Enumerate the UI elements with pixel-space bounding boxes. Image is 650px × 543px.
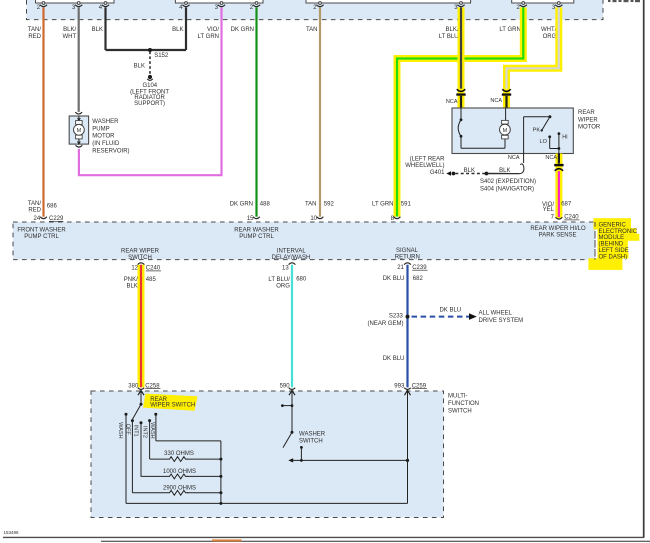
svg-text:RESERVOIR): RESERVOIR) [92,149,129,155]
wire 993 inside box [407,391,409,503]
washer switch rail [288,458,293,462]
svg-text:21: 21 [397,265,404,271]
connector block C2 [175,0,263,3]
svg-text:INT1: INT1 [133,425,139,437]
svg-text:SWITCH: SWITCH [299,439,323,445]
svg-text:HI: HI [562,134,568,140]
dashed wire DK BLU to all wheel drive [412,316,470,318]
svg-text:DK GRN: DK GRN [230,202,253,208]
svg-text:OFF: OFF [125,424,131,436]
next page top border [101,540,650,542]
wire HI down and out of box [558,134,560,154]
svg-text:OF DASH): OF DASH) [599,255,628,261]
svg-text:REAR WIPER: REAR WIPER [121,248,160,254]
svg-text:LT BLU/: LT BLU/ [268,277,290,283]
svg-text:15: 15 [247,216,254,222]
washer switch feed [291,391,293,432]
svg-text:BLK: BLK [464,168,475,174]
contact HI [558,132,561,135]
wire BLK (pin 4 right) to S152 [185,7,187,50]
svg-text:BLK/: BLK/ [63,27,76,33]
svg-text:PARK SENSE: PARK SENSE [539,232,577,238]
page bottom border [3,536,644,538]
contact OFF [131,419,134,422]
svg-text:G401: G401 [430,170,445,176]
svg-text:7: 7 [551,215,555,221]
svg-text:1000 OHMS: 1000 OHMS [163,469,196,475]
wire LT GRN 591 highlighted (yellow) [397,7,523,216]
svg-text:RETURN: RETURN [395,255,420,261]
resistor R2 1000 OHMS [141,475,167,477]
wire LT BLU/ORG 680 [291,265,293,388]
svg-text:BLK: BLK [126,284,137,290]
multi-function switch dashed box [91,391,444,518]
svg-text:SWITCH: SWITCH [448,408,472,414]
wiper switch arm to PK [542,117,550,131]
svg-text:PUMP: PUMP [92,126,109,132]
splice S233 [406,315,410,319]
pin 2 terminal cup at x=523.3 [520,5,527,7]
pin 3 at x=221.5 [220,2,223,5]
svg-text:REAR WIPER HI/LO: REAR WIPER HI/LO [530,226,586,232]
svg-text:G104: G104 [142,83,157,89]
svg-text:RED: RED [28,34,41,40]
svg-text:DRIVE SYSTEM: DRIVE SYSTEM [479,318,524,324]
svg-text:MODULE: MODULE [599,235,625,241]
svg-text:WHT/: WHT/ [541,27,557,33]
svg-text:REAR: REAR [578,110,595,116]
svg-text:WASH: WASH [117,422,123,438]
pin 4 at x=105.5 [104,2,107,5]
svg-text:153496: 153496 [4,530,20,535]
svg-text:WHT: WHT [63,34,77,40]
highlighted label REAR WIPER SWITCH [143,394,198,411]
svg-text:488: 488 [260,202,271,208]
svg-text:YEL: YEL [543,207,555,213]
svg-text:TAN/: TAN/ [28,27,42,33]
svg-text:WHEELWELL): WHEELWELL) [405,163,444,169]
svg-text:S233: S233 [389,313,404,319]
pin 3 terminal cup at x=78.7 [75,5,82,7]
svg-text:NCA: NCA [508,155,520,161]
rear wiper motor box [452,108,573,154]
GEM exit cup pin 12 C240 [138,263,145,265]
washer pump motor feed arrow [78,116,80,120]
pin 4 terminal cup at x=186 [182,5,189,7]
highlighted label GENERIC ELECTRONIC MODULE (BEHIND LEFT SIDE OF DASH) [594,218,632,229]
GEM exit cup pin 13 [289,263,296,265]
svg-text:592: 592 [324,202,335,208]
svg-text:WASHER: WASHER [92,119,119,125]
pin 3 at x=558.8 [557,2,560,5]
svg-text:S402 (EXPEDITION): S402 (EXPEDITION) [480,179,536,185]
svg-text:BLK: BLK [499,168,510,174]
rear wiper switch feed [140,391,142,404]
rear wiper motor M2 symbol [505,108,507,121]
svg-text:682: 682 [413,276,424,282]
svg-text:BLK: BLK [172,27,183,33]
svg-text:LT BLU: LT BLU [439,34,459,40]
inline connector NCA on WHT/ORG [502,89,510,91]
svg-text:MULTI-: MULTI- [448,393,468,399]
washer switch contact [300,446,303,449]
wire DK GRN 488 (rear washer pump ctrl) [255,7,257,216]
svg-text:TAN/: TAN/ [28,201,42,207]
svg-text:680: 680 [296,277,307,283]
svg-text:DELAY/WASH: DELAY/WASH [272,255,311,261]
inline connector NCA on VIO wire [554,164,563,166]
svg-text:RED: RED [28,208,41,214]
wire TAN 592 [319,7,321,216]
wire BLK horizontal joining at S152 [106,49,187,51]
wire DK BLU 682 [406,265,408,388]
splice S152 [148,48,152,52]
pin 3 at x=461 [460,2,463,5]
pin 2 at x=523.3 [522,2,525,5]
entry arrow 590 [289,390,295,395]
svg-text:LEFT SIDE: LEFT SIDE [599,248,629,254]
svg-text:REAR WASHER: REAR WASHER [234,228,279,234]
svg-text:13: 13 [282,266,289,272]
svg-text:M: M [77,128,82,134]
wire LO to output [549,137,551,149]
resistor R1 330 OHMS [150,458,167,460]
svg-text:FRONT WASHER: FRONT WASHER [17,228,66,234]
svg-text:(IN FLUID: (IN FLUID [92,141,120,147]
svg-text:591: 591 [401,202,412,208]
top right cut text fragment [608,0,640,2]
wire inside motor box to motor [461,147,505,149]
park switch contact (inside motor) [460,108,462,119]
GEM border right edge over highlight [594,222,596,260]
pin 3 terminal cup at x=461 [457,5,464,7]
entry arrow 993 [405,390,411,395]
pin 2 terminal cup at x=320 [316,5,323,7]
svg-text:MOTOR: MOTOR [578,125,601,131]
svg-text:(LEFT REAR: (LEFT REAR [410,157,446,163]
svg-text:380: 380 [128,383,139,389]
wire WASH2 to resistor ladder [156,440,221,442]
washer switch pivot [291,431,294,434]
svg-text:INTERVAL: INTERVAL [277,248,306,254]
GEM module dashed box [13,222,595,260]
svg-text:ORG: ORG [276,283,290,289]
svg-text:ELECTRONIC: ELECTRONIC [599,229,638,235]
washer pump motor output arrow [78,139,80,144]
wire VIO 687 highlighted (rear wiper hi/lo park sense) [555,154,562,219]
svg-text:LT GRN: LT GRN [499,27,520,33]
svg-text:686: 686 [47,204,58,210]
svg-text:(NEAR GEM): (NEAR GEM) [368,321,404,327]
svg-text:(BEHIND: (BEHIND [599,242,624,248]
svg-text:DK BLU: DK BLU [383,276,405,282]
svg-text:590: 590 [280,383,291,389]
svg-text:993: 993 [394,383,405,389]
connector block C4 (top right) [512,0,574,3]
svg-text:WIPER: WIPER [578,117,598,123]
GEM exit cup pin 21 C239 [404,263,411,265]
svg-text:S404 (NAVIGATOR): S404 (NAVIGATOR) [480,186,534,192]
svg-text:TAN: TAN [306,27,318,33]
bottom rail wire [126,502,408,504]
wire BLK (pin 4 left) to S152 [104,7,106,50]
svg-text:NCA: NCA [490,98,502,104]
contact WASH right [154,413,157,416]
svg-text:DK BLU: DK BLU [439,307,461,313]
ground G104 [148,75,152,79]
wiper switch pivot node [548,115,551,118]
svg-text:PUMP CTRL: PUMP CTRL [239,234,274,240]
svg-text:330 OHMS: 330 OHMS [164,451,194,457]
svg-text:BLK: BLK [92,27,103,33]
resistor ladder common vertical [220,441,222,504]
top module dashed box (cut off at top) [27,0,604,20]
washer switch arm [283,432,292,447]
page right border [643,0,645,538]
svg-text:DK GRN: DK GRN [231,27,254,33]
next page orange wire fragment [212,539,242,541]
pin 2 at x=256.5 [255,2,258,5]
pin 2 terminal cup at x=256.5 [253,5,260,7]
wire WHT/ORG highlighted [507,7,559,88]
contact INT2 [148,419,151,422]
svg-text:LO: LO [540,139,548,145]
svg-text:MOTOR: MOTOR [92,134,115,140]
washer switch upper contact pair [281,404,284,407]
svg-text:SUPPORT): SUPPORT) [134,101,165,107]
inline connector NCA on BLK/LT BLU [457,89,465,91]
pin 4 terminal cup at x=105.5 [102,5,109,7]
svg-text:LT GRN: LT GRN [198,34,219,40]
svg-text:485: 485 [146,277,157,283]
pin 2 at x=320 [319,2,322,5]
connector block C1 (top left) [36,0,115,3]
svg-text:NCA: NCA [446,99,458,105]
svg-text:PK: PK [533,128,541,134]
svg-text:NCA: NCA [545,155,557,161]
svg-text:ORG: ORG [543,34,557,40]
svg-text:S152: S152 [154,53,169,59]
wire BLK/WHT (to washer pump motor) [78,7,80,112]
svg-text:PUMP CTRL: PUMP CTRL [24,234,59,240]
resistor R3 2900 OHMS [132,492,167,494]
pin 2 terminal cup at x=43.5 [40,5,47,7]
svg-text:PNK/: PNK/ [124,277,138,283]
svg-text:10: 10 [310,216,317,222]
wire BLK from splice to motor pigtail [487,173,520,175]
contact LO [548,135,551,138]
wire VIO/LT GRN (pin 3 to washer motor low side) [79,7,222,175]
washer pump motor M1 symbol [76,121,83,125]
svg-text:TAN: TAN [305,202,317,208]
wire TAN/RED 686 (front washer pump ctrl) [42,7,44,216]
svg-text:GENERIC: GENERIC [599,222,627,228]
wire PNK/BLK 485 highlighted [138,265,145,388]
pin 3 at x=78.7 [77,2,80,5]
wire BLK/LT BLU highlighted [458,7,465,107]
svg-text:DK BLU: DK BLU [383,356,405,362]
svg-text:FUNCTION: FUNCTION [448,401,479,407]
svg-text:BLK: BLK [134,64,145,70]
pin 2 at x=43.5 [42,2,45,5]
ground G401 symbol [446,171,451,176]
svg-text:24: 24 [34,216,41,222]
svg-text:SWITCH: SWITCH [128,255,152,261]
washer pump motor box [69,116,88,144]
svg-text:WASHER: WASHER [299,432,326,438]
contact INT1 [140,421,143,424]
svg-text:687: 687 [561,201,572,207]
pin 4 at x=186 [185,2,188,5]
contact WASH left [125,413,128,416]
svg-text:BLK/: BLK/ [445,27,458,33]
pin 3 terminal cup at x=221.5 [218,5,225,7]
svg-text:LT GRN: LT GRN [372,202,393,208]
connector block C3 [306,0,471,3]
pin 3 terminal cup at x=558.8 [555,5,562,7]
svg-text:VIO/: VIO/ [207,27,219,33]
rear wiper switch arm [133,404,142,419]
svg-text:WIPER SWITCH: WIPER SWITCH [150,403,195,409]
svg-text:M: M [503,128,508,134]
wiper speed switch feed wire [523,117,525,154]
wire BLK dashed from G401 [455,173,485,175]
splice S402/S404 [485,172,489,176]
motor ground pigtail with NCA curl [523,154,525,164]
wire BLK dashed to ground [149,52,151,75]
svg-text:ALL WHEEL: ALL WHEEL [479,311,513,317]
entry arrow 380 [138,390,144,395]
svg-text:INT2: INT2 [141,426,147,438]
svg-text:WASH: WASH [149,422,155,438]
svg-text:2900 OHMS: 2900 OHMS [163,486,196,492]
svg-text:SIGNAL: SIGNAL [396,248,419,254]
